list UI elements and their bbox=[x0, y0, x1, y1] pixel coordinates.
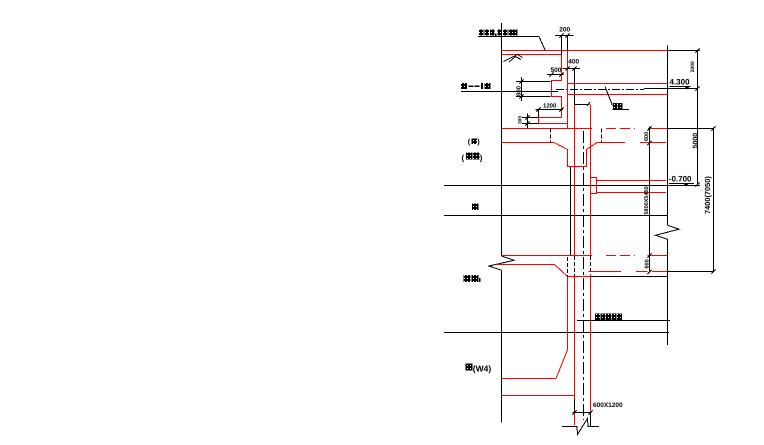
top dimension extension (roof to right dim) bbox=[668, 50, 701, 52]
dimension 400 bbox=[563, 68, 581, 70]
lower slab bottom line black part bbox=[591, 276, 668, 278]
leader line for top note bbox=[478, 36, 539, 38]
svg-text:600X1200: 600X1200 bbox=[593, 402, 623, 409]
lower slab right middle line (red) bbox=[589, 271, 622, 273]
break symbol on right grid line bbox=[656, 225, 680, 239]
lower slab left bottom with haunch slope (red) bbox=[497, 265, 568, 277]
dimension 300 (vertical, rotated) bbox=[527, 114, 529, 129]
svg-text:300: 300 bbox=[517, 116, 523, 124]
column centerline (vertical dash-dot) bbox=[583, 131, 585, 420]
dimension 1200 bbox=[536, 109, 564, 111]
insulation chevron marks on roof bbox=[504, 55, 523, 62]
dimension 800 (vertical, rotated) bbox=[521, 77, 523, 101]
dimension chain right inner (600 / 5800X5450 / 600) bbox=[649, 127, 651, 273]
dimension extension at y128 right bbox=[668, 128, 714, 130]
underline for drainage label bbox=[577, 320, 670, 322]
footing upper red vertical bbox=[567, 277, 569, 351]
dimension 600X1200 at pile bottom bbox=[574, 399, 576, 413]
long level line -0.700 bbox=[444, 185, 700, 187]
footing top line (red) bbox=[502, 378, 557, 380]
beam on corbel top line (red) bbox=[597, 180, 667, 182]
svg-text:-0.700: -0.700 bbox=[669, 175, 692, 184]
slab at second level top (red with dashes) bbox=[502, 128, 593, 130]
svg-text:): ) bbox=[480, 153, 483, 162]
svg-text:400: 400 bbox=[568, 58, 579, 65]
floor slab 4.300 bottom line (red) bbox=[568, 94, 668, 96]
svg-text:5800X5450: 5800X5450 bbox=[644, 186, 650, 214]
corbel (red) bbox=[591, 178, 597, 194]
pile right red line full height bbox=[590, 105, 592, 257]
svg-text:2000: 2000 bbox=[690, 61, 696, 72]
label drainage board (bottom right, blob text) bbox=[595, 314, 600, 320]
svg-text:600: 600 bbox=[645, 259, 651, 268]
pile left red line full height bbox=[574, 105, 576, 257]
svg-text:800: 800 bbox=[516, 85, 523, 96]
long axis line second bbox=[444, 215, 668, 217]
svg-text:(W4): (W4) bbox=[473, 363, 492, 373]
svg-text:200: 200 bbox=[559, 26, 570, 33]
svg-text:500: 500 bbox=[551, 67, 562, 74]
hidden dashed lines through lower slab bbox=[567, 257, 569, 277]
underline of section name label bbox=[461, 91, 558, 93]
dimension 500 bbox=[547, 74, 564, 76]
label pile (W4) left bbox=[466, 363, 473, 370]
centerline of floor level (dash-dot) bbox=[556, 89, 644, 91]
hidden dashed verticals in slab bbox=[550, 129, 552, 143]
parapet ledge (red) bbox=[539, 118, 568, 124]
svg-text:(: ( bbox=[462, 153, 465, 162]
lower slab top line (red) bbox=[502, 255, 593, 257]
grid line left (vertical axis) bbox=[501, 23, 503, 256]
leader and small label near beam bbox=[605, 87, 613, 106]
label pile top left bbox=[464, 275, 471, 282]
break symbol on left grid line bbox=[489, 256, 514, 270]
svg-text:4.300: 4.300 bbox=[670, 78, 691, 87]
svg-text:600: 600 bbox=[644, 132, 650, 141]
beam on corbel bottom line (red) bbox=[597, 192, 667, 194]
roof slab top (red) bbox=[502, 50, 668, 52]
parapet wall left face with notch (red) bbox=[552, 51, 562, 118]
footing slope (red) bbox=[556, 350, 568, 379]
dimension 200 (top) bbox=[561, 36, 563, 55]
dimension line right 2000/5000 bbox=[697, 51, 699, 185]
label: section name (left, blob text with dashes) bbox=[461, 83, 467, 89]
slab bottom with haunch (red) bbox=[502, 143, 626, 167]
grid line right (vertical wall edge line) bbox=[667, 45, 669, 225]
svg-text:5000: 5000 bbox=[692, 133, 699, 149]
svg-text:7400(7050): 7400(7050) bbox=[703, 176, 712, 214]
beam box top edge (black) bbox=[574, 104, 590, 106]
dimension line right outer 7400(7050) bbox=[713, 128, 715, 272]
svg-text:1200: 1200 bbox=[543, 103, 557, 110]
label axis char left bbox=[472, 203, 478, 210]
floor slab 4.300 top line (red) bbox=[568, 83, 668, 85]
long bottom line bbox=[444, 332, 669, 334]
label: waterproof/insulation note (top left, blob text) bbox=[479, 30, 484, 36]
footing bottom line (red) bbox=[502, 395, 575, 397]
parapet wall right face (red) bbox=[567, 51, 569, 129]
roof slab surface second line (red) bbox=[502, 54, 562, 56]
dimension extension at y271 right bbox=[668, 271, 714, 273]
pile black line left bbox=[570, 167, 572, 256]
lower slab bottom line red part bbox=[568, 276, 591, 278]
pile bottom break symbol bbox=[562, 419, 599, 435]
